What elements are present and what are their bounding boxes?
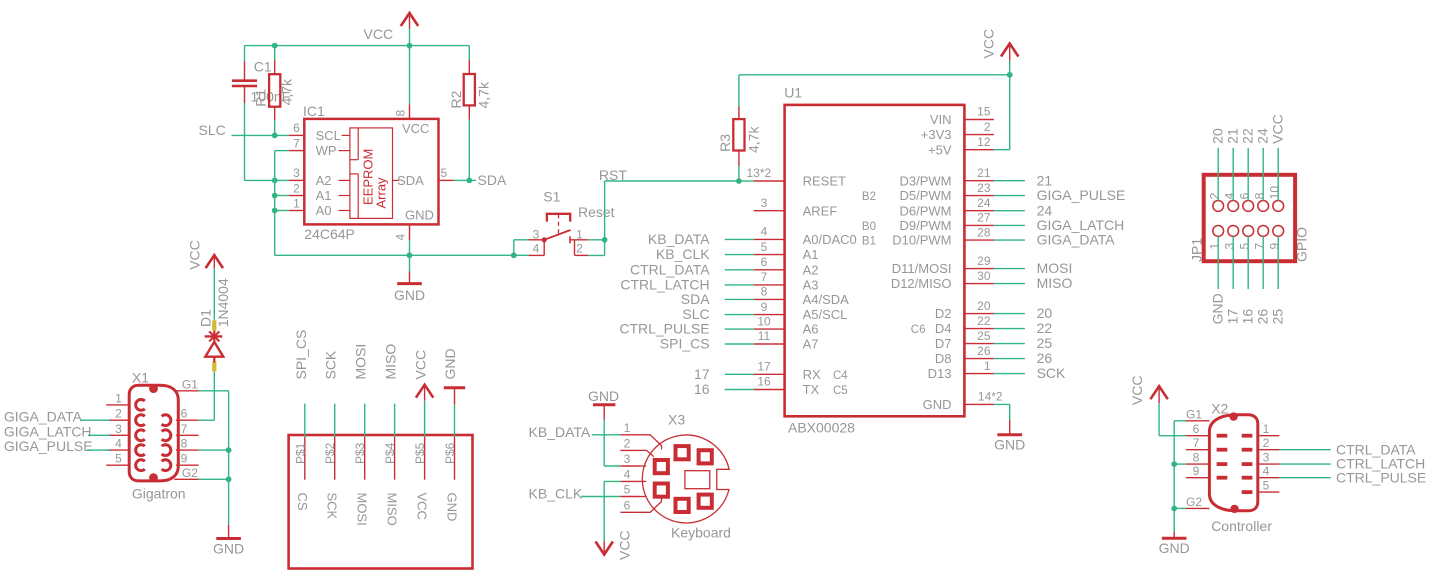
svg-text:10: 10 (757, 314, 771, 328)
X1 pin G2 (174, 466, 198, 480)
X1 pin 1 (106, 391, 145, 410)
U1 pin 21 (D3/PWM) (900, 166, 994, 188)
svg-text:G1: G1 (182, 378, 198, 392)
svg-text:GIGA_PULSE: GIGA_PULSE (1037, 187, 1126, 203)
svg-text:6: 6 (1238, 192, 1252, 199)
svg-text:27: 27 (977, 211, 991, 225)
svg-text:S1: S1 (543, 189, 560, 205)
X3 contact pad 6 (699, 495, 712, 508)
wire U1 pin 22 to net 22 (994, 328, 1025, 330)
X2 pin 1 (1242, 422, 1280, 438)
SPI header pin P$1 (293, 437, 307, 480)
JP1 pin 4 circle (1228, 201, 1239, 212)
svg-text:D8: D8 (935, 351, 952, 366)
svg-text:8: 8 (394, 110, 408, 117)
ground symbol below U1 (997, 420, 1022, 435)
svg-text:2: 2 (576, 242, 583, 256)
svg-text:2: 2 (624, 437, 631, 451)
svg-text:B0: B0 (862, 221, 876, 233)
wire VCC arrow to rail (1009, 61, 1011, 75)
svg-text:1: 1 (576, 228, 583, 242)
wire X2 pin4 to net CTRL_PULSE (1279, 477, 1330, 479)
power VCC symbol (SPI P$5) (416, 385, 433, 401)
svg-text:RX: RX (803, 367, 821, 382)
wire JP1 pin 6 up (1247, 148, 1249, 201)
X2 body top mounting dot (1229, 412, 1237, 420)
svg-text:D6/PWM: D6/PWM (900, 203, 952, 218)
X1 pin 5 (106, 452, 145, 471)
svg-text:MISO: MISO (385, 493, 400, 526)
svg-text:X1: X1 (132, 370, 149, 386)
X2 pin G2 (1186, 495, 1209, 509)
node junction RST / R3 (736, 178, 742, 184)
svg-text:MOSI: MOSI (1037, 260, 1073, 276)
wire X2 G1 to ground bus (1174, 421, 1186, 532)
svg-text:R1: R1 (253, 89, 269, 107)
svg-text:GND: GND (442, 348, 458, 379)
X2 pin 4 (1242, 464, 1280, 480)
svg-text:4,7k: 4,7k (746, 126, 762, 153)
IC1 pin 7 (WP) (289, 136, 350, 158)
svg-text:3: 3 (1263, 450, 1270, 464)
svg-text:Reset: Reset (578, 204, 615, 220)
svg-text:SCK: SCK (1037, 365, 1066, 381)
svg-text:16: 16 (1240, 309, 1256, 325)
JP1 pin 1 circle (1213, 226, 1224, 237)
wire U1 pin 30 to net MISO (994, 283, 1025, 285)
svg-text:2: 2 (293, 181, 300, 195)
IC1 pin 5 (SDA) (393, 166, 454, 188)
resistor R2 (464, 60, 475, 120)
svg-text:17: 17 (1225, 309, 1241, 325)
wire U1 pin 29 to net MOSI (994, 268, 1025, 270)
wire SDA pin to R2 (454, 179, 470, 181)
svg-text:22: 22 (977, 314, 991, 328)
U1 pin 16 (TX) (754, 375, 820, 397)
wire VCC arrow stem (409, 28, 411, 46)
svg-text:Array: Array (374, 177, 389, 209)
svg-text:RESET: RESET (803, 174, 846, 189)
svg-text:6: 6 (181, 407, 188, 421)
wire VCC to pin P$5 (424, 401, 426, 437)
wire U1 pin 25 to net 25 (994, 343, 1025, 345)
U1 pin 5 (A1) (754, 240, 819, 262)
node junction A0 (272, 208, 278, 214)
svg-text:26: 26 (1037, 350, 1053, 366)
connector X3 outline (mini-DIN circle with notch) (642, 435, 729, 523)
svg-text:ABX00028: ABX00028 (788, 420, 855, 436)
svg-text:6: 6 (1193, 422, 1200, 436)
node junction A1 (272, 193, 278, 199)
svg-text:20: 20 (1037, 305, 1053, 321)
IC1 pin 3 (A2) (289, 166, 350, 188)
IC1 pin 6 (SCL) (289, 121, 350, 143)
wire JP1 pin 1 down (1217, 236, 1219, 289)
svg-text:VCC: VCC (981, 29, 997, 59)
U1 pin 22 (D4) (911, 314, 994, 336)
ground symbol below X1 (216, 525, 241, 539)
svg-text:GND: GND (588, 388, 619, 404)
svg-text:P$2: P$2 (323, 442, 337, 464)
wire C1 top to VCC rail (244, 46, 246, 62)
wire U1 pin 21 to net 21 (994, 180, 1025, 182)
svg-text:14*2: 14*2 (978, 390, 1003, 404)
svg-text:VCC: VCC (1129, 376, 1145, 406)
node junction SDA/R2 (466, 178, 472, 184)
wire net GIGA_LATCH (88, 434, 110, 436)
wire RST riser (604, 181, 606, 240)
ground symbol below X2 (1162, 532, 1187, 539)
resistor R3 (733, 107, 744, 167)
svg-text:6: 6 (761, 255, 768, 269)
wire net SLC (232, 134, 290, 136)
SPI header pin P$5 (413, 437, 427, 480)
svg-text:3: 3 (624, 452, 631, 466)
IC1 inner EEPROM array symbol (350, 128, 393, 218)
wire U1 pin 20 to net 20 (994, 313, 1025, 315)
wire JP1 pin 2 up (1217, 148, 1219, 201)
wire JP1 pin 8 up (1262, 148, 1264, 201)
svg-text:MISO: MISO (383, 344, 399, 380)
wire X1 G1 elbow to ground bus (199, 391, 229, 525)
svg-text:JP1: JP1 (1189, 238, 1205, 262)
X1 pin 3 (106, 422, 145, 441)
svg-text:23: 23 (977, 181, 991, 195)
svg-text:X3: X3 (668, 412, 685, 428)
node junction VCC rail / +5V riser (1007, 72, 1013, 78)
svg-text:GPIO: GPIO (1294, 227, 1310, 262)
wire net KB_CLK to X3 pin5 (581, 496, 620, 498)
ground symbol below IC1 (397, 255, 422, 283)
svg-text:GIGA_DATA: GIGA_DATA (4, 408, 83, 424)
wire JP1 pin 4 up (1232, 148, 1234, 201)
svg-text:3: 3 (1223, 243, 1237, 250)
svg-text:VCC: VCC (415, 493, 430, 520)
svg-text:11: 11 (758, 329, 771, 343)
node junction GND bus / S1 branch (511, 252, 517, 258)
svg-text:G1: G1 (1186, 407, 1202, 421)
svg-text:R2: R2 (448, 90, 464, 108)
svg-text:GIGA_LATCH: GIGA_LATCH (4, 423, 92, 439)
U1 pin 10 (A6) (754, 314, 819, 336)
SPI header pin P$6 (443, 437, 457, 480)
svg-text:Gigatron: Gigatron (132, 486, 186, 502)
svg-text:SPI_CS: SPI_CS (293, 330, 309, 380)
X1 pin 2 (106, 407, 145, 426)
wire +5V to VCC riser (994, 149, 1010, 151)
svg-text:TX: TX (803, 382, 820, 397)
X2 pin 6 (1186, 422, 1227, 438)
svg-text:GIGA_DATA: GIGA_DATA (1037, 232, 1116, 248)
svg-text:8: 8 (1253, 192, 1267, 199)
svg-text:7: 7 (1193, 436, 1200, 450)
wire U1 pin 1 to net SCK (994, 373, 1025, 375)
svg-text:1N4004: 1N4004 (215, 278, 231, 327)
svg-text:MOSI: MOSI (353, 344, 369, 380)
svg-text:5: 5 (1238, 243, 1252, 250)
wire +5V riser (1009, 75, 1011, 150)
wire A0 stub (275, 210, 289, 212)
svg-text:21: 21 (1225, 128, 1241, 144)
X1 pin 4 (106, 437, 145, 456)
wire A2 stub (275, 179, 289, 181)
wire X1 pin8 to ground bus (199, 449, 229, 451)
wire net CTRL_PULSE to U1 pin 10 (725, 328, 754, 330)
svg-text:3: 3 (293, 166, 300, 180)
svg-text:VCC: VCC (364, 26, 394, 42)
svg-text:D9/PWM: D9/PWM (900, 218, 952, 233)
wire GND to pin P$6 (454, 405, 456, 437)
wire to SDA label (469, 179, 476, 181)
svg-text:9: 9 (1193, 464, 1200, 478)
svg-text:4: 4 (1223, 192, 1237, 199)
wire X1 G2 to ground bus (199, 478, 229, 480)
wire S1 pin2 to riser (588, 240, 604, 256)
power VCC symbol (below X3, pointing down) (596, 541, 613, 555)
svg-text:A2: A2 (316, 173, 332, 188)
svg-text:8: 8 (1193, 450, 1200, 464)
svg-text:2: 2 (1208, 192, 1222, 199)
X3 pin 1 (620, 421, 661, 450)
wire net SPI_CS to pin P$1 (304, 404, 306, 437)
power VCC symbol (top right) (1001, 44, 1018, 61)
svg-text:MOSI: MOSI (355, 493, 370, 526)
svg-text:1: 1 (293, 196, 300, 210)
svg-text:15: 15 (977, 105, 991, 119)
wire S1 pin3 branch (514, 240, 529, 256)
svg-text:24: 24 (1255, 128, 1271, 144)
wire net CTRL_LATCH to U1 pin 7 (725, 284, 754, 286)
svg-text:C4: C4 (833, 370, 848, 382)
svg-text:C1: C1 (254, 59, 272, 75)
wire net CTRL_DATA to U1 pin 6 (725, 269, 754, 271)
svg-text:17: 17 (757, 360, 771, 374)
U1 pin 15 (VIN) (930, 105, 994, 127)
svg-text:KB_CLK: KB_CLK (656, 246, 710, 262)
svg-text:1: 1 (624, 421, 631, 435)
wire U1 pin 23 to net GIGA_PULSE (994, 195, 1025, 197)
svg-text:24: 24 (1037, 202, 1053, 218)
svg-text:+3V3: +3V3 (921, 127, 952, 142)
ground symbol (SPI P$6) (444, 388, 465, 405)
diode D1 1N4004 (205, 320, 224, 371)
U1 pin 4 (A0/DAC0) (754, 225, 857, 247)
svg-text:2: 2 (115, 407, 122, 421)
svg-text:KB_DATA: KB_DATA (648, 231, 710, 247)
svg-text:17: 17 (694, 366, 710, 382)
node junction R1-VCC (272, 43, 278, 49)
power VCC symbol (top left) (401, 13, 418, 29)
X2 pin 8 (1186, 450, 1227, 466)
svg-text:VCC: VCC (402, 121, 429, 136)
U1 pin 24 (D6/PWM) (900, 196, 994, 218)
X3 contact pad 5 (676, 499, 689, 512)
SPI header pin P$3 (353, 437, 367, 480)
node junction IC1 pin4 / GND bus (407, 252, 413, 258)
svg-text:3: 3 (115, 422, 122, 436)
wire net SPI_CS to U1 pin 11 (725, 343, 754, 345)
svg-text:GND: GND (445, 493, 460, 522)
U1 pin 20 (D2) (935, 299, 994, 321)
wire X2 pin2 to net CTRL_DATA (1279, 449, 1330, 451)
svg-text:2: 2 (984, 120, 991, 134)
U1 pin 3 (AREF) (754, 196, 838, 218)
svg-text:3: 3 (761, 196, 768, 210)
wire S1 pin1 to RST riser (588, 239, 604, 241)
wire U1 pin 28 to net GIGA_DATA (994, 239, 1025, 241)
svg-text:2: 2 (1263, 436, 1270, 450)
wire GND vertical A2-A0 down to bus (274, 180, 276, 255)
U1 pin 25 (D7) (935, 329, 994, 351)
X2 pin G1 (1186, 407, 1209, 421)
svg-text:A7: A7 (803, 337, 819, 352)
power VCC symbol (above D1) (206, 255, 223, 268)
svg-text:21: 21 (977, 166, 991, 180)
switch S1 (529, 214, 589, 256)
svg-text:D2: D2 (935, 306, 952, 321)
svg-text:R3: R3 (717, 134, 733, 152)
svg-text:A1: A1 (803, 247, 819, 262)
svg-text:D11/MOSI: D11/MOSI (892, 261, 952, 276)
svg-text:CS: CS (295, 493, 310, 511)
U1 pin 12 (+5V) (928, 135, 994, 157)
IC1 EEPROM 24C64P box (304, 119, 438, 224)
pin header JP1 box (1204, 175, 1295, 261)
wire GND bus horizontal (275, 254, 529, 256)
X3 pin 3 (620, 452, 646, 466)
svg-text:VCC: VCC (412, 350, 428, 380)
wire IC1 pin4 to bus (409, 240, 411, 255)
JP1 pin 3 circle (1228, 226, 1239, 237)
wire net RST horizontal (605, 180, 739, 182)
svg-text:SPI_CS: SPI_CS (660, 336, 710, 352)
svg-text:20: 20 (1210, 128, 1226, 144)
U1 pin 11 (A7) (754, 329, 819, 351)
IC1 pin 2 (A1) (289, 181, 350, 203)
X1 body top mounting dot (149, 384, 158, 393)
svg-text:4: 4 (115, 437, 122, 451)
svg-text:Keyboard: Keyboard (671, 525, 731, 541)
svg-text:X2: X2 (1211, 401, 1228, 417)
svg-text:8: 8 (761, 285, 768, 299)
svg-text:VCC: VCC (1270, 114, 1286, 144)
wire net KB_CLK to U1 pin 5 (725, 254, 754, 256)
wire net 17 to U1 pin 17 (725, 373, 754, 375)
connector X1 body (DB9 female) (129, 385, 178, 481)
svg-text:GND: GND (394, 287, 425, 303)
wire net MOSI to pin P$3 (364, 404, 366, 437)
X1 pin 7 (162, 422, 199, 441)
svg-text:1: 1 (115, 391, 122, 405)
svg-text:4,7k: 4,7k (476, 81, 492, 108)
wire X3 pin4 to VCC below (604, 481, 620, 541)
power VCC symbol (X2) (1150, 386, 1167, 403)
svg-text:A0: A0 (316, 203, 332, 218)
X3 contact pad 1 (676, 446, 689, 459)
X3 contact pad 2 (699, 450, 712, 463)
svg-text:WP: WP (316, 143, 337, 158)
wire X1 pin6 to D1 anode (199, 371, 215, 420)
svg-text:6: 6 (624, 499, 631, 513)
svg-text:C6: C6 (911, 324, 926, 336)
svg-text:CTRL_PULSE: CTRL_PULSE (1336, 469, 1426, 485)
svg-text:10: 10 (1268, 186, 1282, 200)
wire net KB_DATA to X3 pin1 (592, 434, 620, 436)
wire R1 bottom to SCL junction (274, 120, 276, 135)
wire net MISO to pin P$4 (394, 404, 396, 437)
X1 body bottom mounting dot (149, 473, 158, 482)
svg-text:A4/SDA: A4/SDA (803, 292, 850, 307)
svg-text:9: 9 (1268, 243, 1282, 250)
wire U1 pin 27 to net GIGA_LATCH (994, 224, 1025, 226)
svg-text:1: 1 (984, 359, 991, 373)
svg-text:8: 8 (181, 437, 188, 451)
SPI header pin P$4 (383, 437, 397, 480)
U1 pin 8 (A4/SDA) (754, 285, 849, 307)
wire GND to X3 pin3 (604, 420, 620, 467)
resistor R1 (269, 60, 280, 120)
svg-text:B1: B1 (862, 236, 876, 248)
svg-text:22: 22 (1240, 128, 1256, 144)
svg-text:IC1: IC1 (303, 103, 325, 119)
wire VCC rail down to R2 (468, 46, 470, 60)
svg-text:13*2: 13*2 (747, 166, 772, 180)
JP1 pin 9 circle (1273, 226, 1284, 237)
wire U1 pin 24 to net 24 (994, 210, 1025, 212)
wire VCC to X2 pin6 (1159, 403, 1186, 436)
node junction SLC/R1/SCL (272, 133, 278, 139)
capacitor C1 (232, 61, 257, 103)
svg-text:GND: GND (923, 397, 952, 412)
svg-text:25: 25 (977, 329, 991, 343)
svg-text:CTRL_DATA: CTRL_DATA (630, 261, 710, 277)
svg-text:P$5: P$5 (413, 442, 427, 464)
wire RST to U1 RESET pin (739, 180, 754, 182)
wire JP1 pin 3 down (1232, 236, 1234, 289)
JP1 pin 10 circle (1273, 201, 1284, 212)
svg-text:1: 1 (1208, 243, 1222, 250)
wire JP1 pin 9 down (1277, 236, 1279, 289)
svg-text:A1: A1 (316, 188, 332, 203)
JP1 pin 6 circle (1243, 201, 1254, 212)
U1 pin 29 (D11/MOSI) (892, 254, 994, 276)
svg-text:C5: C5 (833, 385, 848, 397)
svg-text:+5V: +5V (928, 142, 952, 157)
svg-text:5: 5 (441, 166, 448, 180)
wire net 16 to U1 pin 16 (725, 389, 754, 391)
X1 pin 9 (162, 452, 199, 471)
wire JP1 pin 5 down (1247, 236, 1249, 289)
svg-text:D3/PWM: D3/PWM (900, 173, 952, 188)
svg-text:SCL: SCL (316, 128, 341, 143)
svg-text:P$6: P$6 (443, 442, 457, 464)
wire R3 top riser (739, 75, 1010, 107)
U1 pin 30 (D12/MISO) (891, 269, 994, 291)
svg-text:D10/PWM: D10/PWM (892, 233, 951, 248)
svg-text:7: 7 (761, 270, 768, 284)
svg-text:7: 7 (1253, 243, 1267, 250)
JP1 pin 7 circle (1258, 226, 1269, 237)
svg-text:P$3: P$3 (353, 442, 367, 464)
svg-text:A0/DAC0: A0/DAC0 (803, 232, 857, 247)
svg-text:GND: GND (1159, 540, 1190, 556)
node junction VCC-arrow (407, 43, 413, 49)
svg-text:3: 3 (533, 228, 540, 242)
X1 pin G1 (174, 378, 198, 392)
U1 pin 23 (D5/PWM) (862, 181, 994, 203)
svg-text:D1: D1 (198, 309, 214, 327)
svg-text:7: 7 (293, 136, 300, 150)
